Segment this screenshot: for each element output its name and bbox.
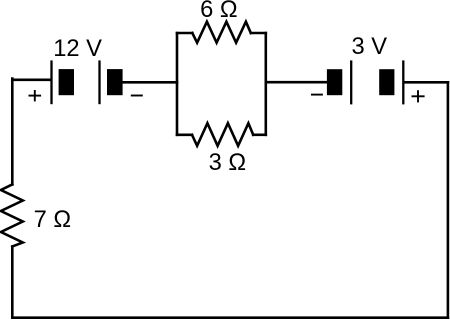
wire: left rail upper segment (corner down to resistor R3 top) — [11, 79, 14, 185]
battery B1 cell2 negative plate (thick) — [107, 69, 123, 95]
wire: parallel group right bar to battery B2 — [266, 81, 328, 84]
wire: battery B1 output to parallel group left bar — [123, 81, 177, 84]
battery B2 cell2 negative plate (thick) — [379, 69, 394, 95]
resistor R2 3-ohm zigzag — [192, 123, 253, 146]
polarity: battery B2 minus sign — [311, 94, 323, 96]
polarity: battery B2 plus sign — [412, 90, 425, 102]
svg-text:3 V: 3 V — [352, 34, 388, 60]
battery B1 cell1 negative plate (thick) — [59, 69, 74, 95]
polarity: battery B1 plus sign — [29, 90, 42, 101]
battery B1 cell2 positive plate (long) — [98, 60, 100, 104]
wire: bottom branch left lead — [177, 134, 192, 137]
node: parallel group right junction bar — [264, 33, 267, 135]
battery B2 positive plate (outer long plate) — [402, 60, 404, 104]
battery B1 12V positive plate (outer long plate) — [50, 60, 52, 104]
wire: left rail lower segment (resistor R3 bottom to bottom-left corner) — [11, 247, 14, 318]
wire: right rail (bottom-right corner up to battery B2 output) — [447, 82, 450, 317]
wire: top-left segment from left rail to battery B1 positive plate — [12, 79, 50, 82]
svg-text:3 Ω: 3 Ω — [209, 150, 246, 176]
polarity: battery B1 minus sign — [131, 95, 143, 97]
wire: bottom branch right lead — [253, 134, 266, 137]
battery B2 cell1 positive plate (long) — [350, 60, 352, 104]
battery B2 cell1 negative plate (thick) — [327, 69, 342, 95]
resistor R3 7-ohm vertical zigzag — [1, 184, 23, 246]
wire: battery B2 output to top-right corner — [404, 81, 448, 84]
svg-text:6 Ω: 6 Ω — [200, 0, 237, 23]
resistor R1 6-ohm zigzag — [192, 22, 251, 43]
wire: top branch right lead — [251, 32, 266, 35]
svg-text:7 Ω: 7 Ω — [34, 207, 71, 233]
wire: bottom rail — [12, 316, 448, 319]
wire: top branch left lead — [177, 32, 192, 35]
node: parallel group left junction bar — [176, 33, 179, 135]
svg-text:12 V: 12 V — [53, 36, 102, 62]
